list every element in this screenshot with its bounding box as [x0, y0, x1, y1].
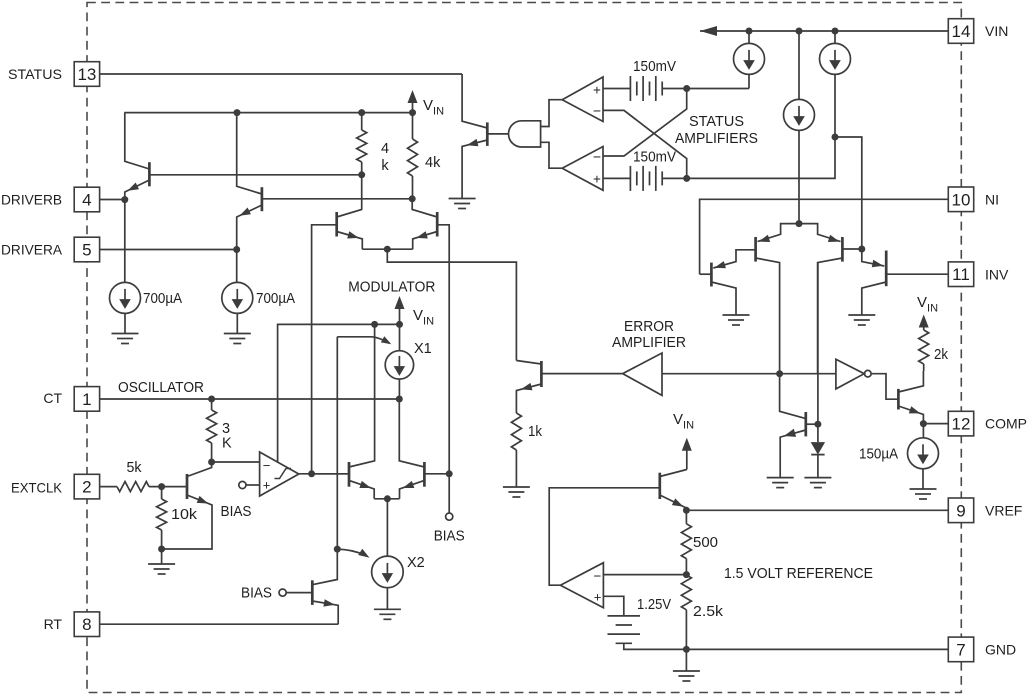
- svg-text:150mV: 150mV: [633, 150, 676, 166]
- svg-text:700µA: 700µA: [143, 291, 182, 307]
- svg-text:VIN: VIN: [985, 23, 1008, 39]
- svg-text:−: −: [593, 103, 601, 119]
- comparator U4 + input BIAS terminal: [239, 481, 246, 488]
- current source X1 (modulator): [399, 324, 401, 350]
- VIN rail of driver section: [124, 112, 412, 114]
- ground under X2: [374, 609, 401, 619]
- svg-text:1.25V: 1.25V: [637, 597, 671, 613]
- transistor Q1 (STATUS latch left): [148, 162, 151, 186]
- transistor Q11 (modulator lower right): [423, 462, 426, 487]
- ground under 1k: [503, 487, 530, 497]
- transistor Q6 (outer left, NI input): [710, 263, 713, 287]
- wire 4k-right bottom to modulator pair: [412, 199, 437, 217]
- ground under Q3: [449, 199, 476, 209]
- comparator U4 output wire: [299, 473, 349, 475]
- node battery B2 output: [683, 175, 690, 182]
- node battery B1 output: [683, 85, 690, 92]
- ground under D1: [804, 478, 831, 488]
- Q17 base feedback wire: [549, 488, 660, 585]
- resistor R2 4k (right): [412, 113, 414, 139]
- svg-text:K: K: [222, 436, 232, 452]
- transistor Q10 (modulator lower left): [348, 462, 351, 487]
- resistor R6 1k: [511, 413, 521, 450]
- ground under divider: [685, 649, 687, 671]
- svg-text:4: 4: [381, 141, 389, 157]
- svg-text:BIAS: BIAS: [221, 504, 252, 520]
- node X1 / CT: [396, 396, 403, 403]
- V_IN arrow driver section: [412, 97, 414, 113]
- svg-text:INV: INV: [985, 267, 1009, 283]
- ground under Q16: [767, 478, 794, 488]
- svg-text:DRIVERB: DRIVERB: [1, 192, 62, 208]
- svg-text:−: −: [593, 149, 601, 165]
- transistor Q14 (error amp input): [540, 361, 543, 387]
- VIN rail left arrow: [700, 26, 717, 36]
- svg-text:X2: X2: [407, 555, 425, 571]
- svg-text:VREF: VREF: [985, 502, 1022, 518]
- pin 13 STATUS: [100, 73, 462, 75]
- pin 14 VIN wire: [700, 30, 948, 32]
- pin 4 DRIVERB: [100, 199, 125, 201]
- svg-text:7: 7: [956, 640, 965, 659]
- op-amp + input wire: [603, 596, 623, 616]
- current source I1 700uA: [124, 200, 126, 283]
- current source IC (from VIN): [834, 31, 836, 43]
- wire battery B2 to current source IC: [662, 137, 835, 178]
- svg-text:AMPLIFIER: AMPLIFIER: [612, 335, 686, 351]
- wire modulator output to error amp transistor: [387, 249, 516, 360]
- hysteretic comparator U4: [260, 452, 299, 496]
- resistor R4 5k: [117, 482, 149, 492]
- comparator U3 + input wire: [603, 177, 630, 179]
- svg-text:11: 11: [952, 265, 970, 284]
- V_IN arrow COMP stage: [923, 321, 925, 330]
- svg-text:2k: 2k: [934, 347, 949, 363]
- pin 10 NI: [948, 187, 973, 212]
- node 10k bottom: [158, 546, 165, 553]
- wire inverter to Q15 base: [871, 374, 898, 400]
- node IC output: [832, 134, 839, 141]
- current source X2 (modulator): [386, 499, 388, 556]
- current source IB (from VIN): [798, 31, 800, 99]
- BIAS terminal (modulator): [448, 474, 450, 513]
- wire 4k-left bottom to modulator pair: [337, 175, 362, 217]
- AND gate U1 (facing left): [509, 121, 541, 147]
- node GND: [683, 646, 690, 653]
- svg-text:RT: RT: [44, 616, 63, 632]
- svg-text:+: +: [263, 478, 271, 493]
- node X2 top: [384, 495, 391, 502]
- comparator U2 - input cross wire: [603, 110, 687, 178]
- node VIN rail C: [832, 28, 839, 35]
- svg-text:BIAS: BIAS: [241, 586, 272, 602]
- svg-text:STATUS: STATUS: [689, 114, 744, 130]
- node BIAS column: [446, 470, 453, 477]
- transistor Q2 (STATUS latch right): [261, 187, 264, 211]
- node EXTCLK: [158, 483, 165, 490]
- svg-text:2.5k: 2.5k: [693, 604, 724, 620]
- battery B2 150mV: [630, 166, 662, 191]
- svg-text:k: k: [381, 158, 389, 174]
- node DRIVERB: [121, 196, 128, 203]
- base wire Q1 to 4k-left: [149, 174, 361, 176]
- inverter U6: [836, 359, 864, 389]
- svg-text:+: +: [593, 83, 601, 98]
- resistor R7 2k: [919, 330, 929, 364]
- svg-text:−: −: [263, 458, 271, 473]
- pin 11 INV: [886, 273, 948, 275]
- pin 7 GND: [686, 648, 948, 650]
- X1 control arrow: [337, 337, 389, 343]
- svg-text:GND: GND: [985, 642, 1016, 658]
- svg-text:OSCILLATOR: OSCILLATOR: [118, 380, 204, 396]
- V_IN arrow modulator: [399, 303, 401, 324]
- pin 14 VIN: [948, 19, 973, 44]
- pin 1 CT: [100, 398, 399, 400]
- battery B1 150mV: [630, 76, 662, 101]
- svg-text:12: 12: [952, 415, 971, 434]
- node error amp output: [776, 370, 783, 377]
- svg-text:1: 1: [82, 390, 91, 409]
- wire IC output to input stage: [835, 137, 862, 249]
- comparator U3 - input cross wire: [603, 89, 687, 157]
- wire X1 node to lower pair right collector: [399, 399, 424, 467]
- resistor R5 10k: [161, 487, 163, 499]
- BIAS terminal (RT): [279, 589, 286, 596]
- transistor Q5 (inner right, input stage): [841, 237, 844, 262]
- node VIN rail A: [746, 28, 753, 35]
- node DRIVERA: [233, 246, 240, 253]
- junction node driver rail: [234, 109, 241, 116]
- transistor Q16 (COMP clamp): [804, 412, 807, 436]
- node input stage tail: [796, 220, 803, 227]
- resistor R9 2.5k: [681, 575, 691, 610]
- svg-text:5k: 5k: [127, 460, 143, 476]
- node comparator output branch: [308, 470, 315, 477]
- transistor Q7 (outer right, INV input): [885, 251, 888, 287]
- svg-text:13: 13: [77, 65, 96, 84]
- node V_IN modulator rail: [396, 321, 403, 328]
- comparator U2 (upper status amp): [562, 77, 603, 122]
- svg-text:STATUS: STATUS: [8, 66, 62, 82]
- transistor Q9 (modulator upper right): [436, 212, 439, 237]
- node Q5 base: [858, 246, 865, 253]
- hysteresis symbol: [275, 469, 292, 479]
- svg-text:1.5 VOLT REFERENCE: 1.5 VOLT REFERENCE: [724, 566, 873, 582]
- svg-text:9: 9: [956, 501, 965, 520]
- svg-text:ERROR: ERROR: [624, 319, 674, 335]
- resistor R8 500: [685, 510, 687, 524]
- svg-text:500: 500: [693, 535, 718, 551]
- svg-text:14: 14: [952, 22, 971, 41]
- svg-text:10: 10: [952, 190, 971, 209]
- node clamp diode: [814, 421, 821, 428]
- wire modulator lower pair emitters: [374, 498, 399, 500]
- transistor Q15 (COMP driver): [897, 389, 900, 410]
- svg-text:4k: 4k: [425, 155, 441, 171]
- node Q2 base / 4k-right bottom: [409, 195, 416, 202]
- transistor Q12 (EXTCLK clamp): [186, 474, 189, 499]
- battery B3 1.25V: [608, 616, 641, 643]
- battery B3 to GND wire: [624, 643, 687, 649]
- svg-text:4: 4: [82, 191, 91, 210]
- transistor Q3 (status output driver): [486, 122, 489, 145]
- ground under I1: [112, 334, 139, 344]
- svg-text:COMP: COMP: [985, 416, 1027, 432]
- pin 12 COMP: [923, 423, 948, 425]
- wire battery B1 to current source IA: [662, 88, 749, 90]
- svg-text:1k: 1k: [528, 424, 543, 440]
- node CT / 3K top: [208, 396, 215, 403]
- error amp output wire: [662, 373, 836, 375]
- wire lower pair left collector: [349, 324, 375, 467]
- svg-text:CT: CT: [43, 390, 62, 406]
- ground under 10k: [161, 549, 163, 564]
- op-amp U7 (reference, facing left): [560, 563, 603, 608]
- comparator U2 + input wire: [603, 88, 630, 90]
- pin 10 NI wire: [700, 199, 948, 274]
- svg-text:BIAS: BIAS: [434, 529, 465, 545]
- svg-text:5: 5: [82, 241, 91, 260]
- node Q1 base / 4k-left bottom: [358, 171, 365, 178]
- diode D1: [817, 263, 819, 443]
- svg-text:DRIVERA: DRIVERA: [1, 242, 63, 258]
- node VIN rail B: [796, 28, 803, 35]
- svg-text:X1: X1: [414, 341, 432, 357]
- pin 2 EXTCLK: [100, 486, 117, 488]
- pin 9 VREF: [686, 509, 948, 511]
- svg-text:NI: NI: [985, 192, 999, 208]
- ground under I2: [224, 334, 251, 344]
- transistor Q8 (modulator upper left): [335, 212, 338, 237]
- node modulator output: [384, 246, 391, 253]
- node VREF: [683, 507, 690, 514]
- ground under I3: [910, 489, 937, 499]
- wire V_IN node to comparator feedback: [278, 324, 400, 462]
- svg-text:EXTCLK: EXTCLK: [11, 480, 63, 496]
- AND gate input stubs: [541, 100, 563, 127]
- ground under Q7: [848, 315, 875, 325]
- svg-text:AMPLIFIERS: AMPLIFIERS: [675, 131, 758, 147]
- current source I2 700uA: [236, 250, 238, 283]
- svg-text:150mV: 150mV: [633, 59, 676, 75]
- current source IA (from VIN): [748, 31, 750, 43]
- svg-text:10k: 10k: [171, 507, 198, 523]
- svg-text:−: −: [594, 569, 602, 584]
- error amplifier U5 (facing left): [623, 353, 662, 395]
- svg-text:8: 8: [82, 615, 91, 634]
- node COMP: [920, 420, 927, 427]
- node divider: [683, 571, 690, 578]
- svg-text:+: +: [593, 172, 601, 187]
- svg-text:700µA: 700µA: [256, 291, 295, 307]
- svg-text:MODULATOR: MODULATOR: [348, 280, 435, 296]
- ground under Q6: [723, 315, 750, 325]
- X2 control arrow: [337, 549, 364, 555]
- node X2 control branch: [334, 546, 341, 553]
- pin 8 RT: [100, 623, 338, 625]
- wire modulator upper pair emitters: [362, 248, 412, 250]
- V_IN arrow reference: [686, 444, 688, 470]
- resistor R3 3K: [211, 399, 213, 410]
- svg-text:150µA: 150µA: [859, 447, 898, 463]
- base wire Q2 to 4k-right: [262, 198, 412, 200]
- transistor Q13 (RT bias): [311, 580, 314, 605]
- svg-text:+: +: [594, 590, 602, 605]
- comparator U3 (lower status amp): [562, 147, 603, 191]
- svg-text:2: 2: [82, 478, 91, 497]
- hysteretic comparator U4 input wire: [212, 461, 260, 463]
- pin 5 DRIVERA: [100, 249, 237, 251]
- node 3K bottom: [208, 459, 215, 466]
- transistor Q17 (VREF emitter follower): [658, 473, 661, 499]
- transistor Q4 (inner left, input stage): [754, 237, 757, 262]
- resistor R1 4k (left): [361, 113, 363, 130]
- current source I3 150uA: [922, 424, 924, 438]
- op-amp - input wire: [603, 574, 686, 576]
